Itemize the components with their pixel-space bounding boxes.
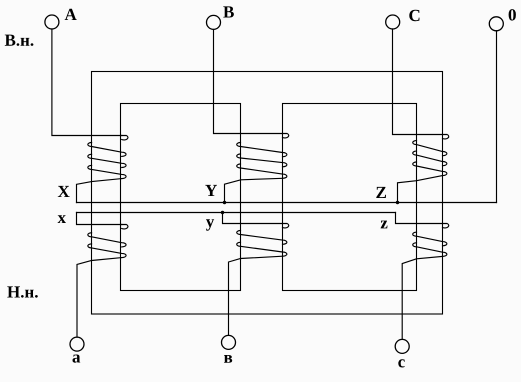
- label b: [224, 355, 232, 363]
- terminal 0: [489, 17, 503, 31]
- LV star bus x-y-z: [77, 212, 396, 214]
- label a: [73, 355, 81, 363]
- label 0: [509, 9, 516, 21]
- wire to terminal a: [77, 258, 122, 337]
- wire B feed: [214, 29, 283, 133]
- label c: [398, 359, 405, 367]
- label Z: [376, 187, 386, 198]
- node Z junction: [396, 201, 399, 204]
- wire z lead: [396, 213, 443, 224]
- label x: [58, 215, 66, 223]
- HV winding phase C (right limb): [413, 135, 449, 176]
- wire to terminal c: [402, 256, 442, 339]
- label N.n. (LV side): [7, 286, 38, 297]
- wire Z lead: [398, 176, 443, 203]
- core window 1: [121, 104, 241, 291]
- LV winding phase b (middle limb): [237, 224, 289, 257]
- HV star bus X-Y-Z: [77, 202, 497, 204]
- LV winding phase a (left limb): [88, 225, 128, 258]
- label C: [409, 10, 419, 22]
- wire x lead: [77, 213, 122, 225]
- HV winding phase B (middle limb): [237, 134, 289, 179]
- node y junction: [221, 211, 224, 214]
- label V.n. (HV side): [5, 35, 34, 46]
- terminal a: [70, 337, 84, 351]
- label Y: [205, 185, 217, 196]
- label z: [381, 221, 388, 229]
- wire to terminal b: [229, 256, 283, 335]
- terminal c: [395, 339, 409, 353]
- HV winding phase A (left limb): [88, 136, 128, 179]
- terminal A: [45, 15, 59, 29]
- terminal b: [222, 335, 236, 349]
- wire Y lead: [225, 178, 283, 202]
- label y: [206, 219, 214, 231]
- wire C feed: [393, 29, 443, 135]
- label A: [65, 9, 77, 20]
- wire X lead: [77, 179, 122, 203]
- node Y junction: [223, 201, 226, 204]
- core window 2: [283, 104, 417, 291]
- wire 0 to neutral bus: [496, 31, 498, 203]
- label B: [223, 6, 234, 17]
- terminal B: [207, 15, 221, 29]
- wire A feed: [52, 29, 122, 136]
- terminal C: [386, 15, 400, 29]
- LV winding phase c (right limb): [413, 224, 449, 257]
- wire y lead: [223, 213, 283, 224]
- core outer rectangle: [92, 72, 443, 315]
- label X: [58, 186, 70, 197]
